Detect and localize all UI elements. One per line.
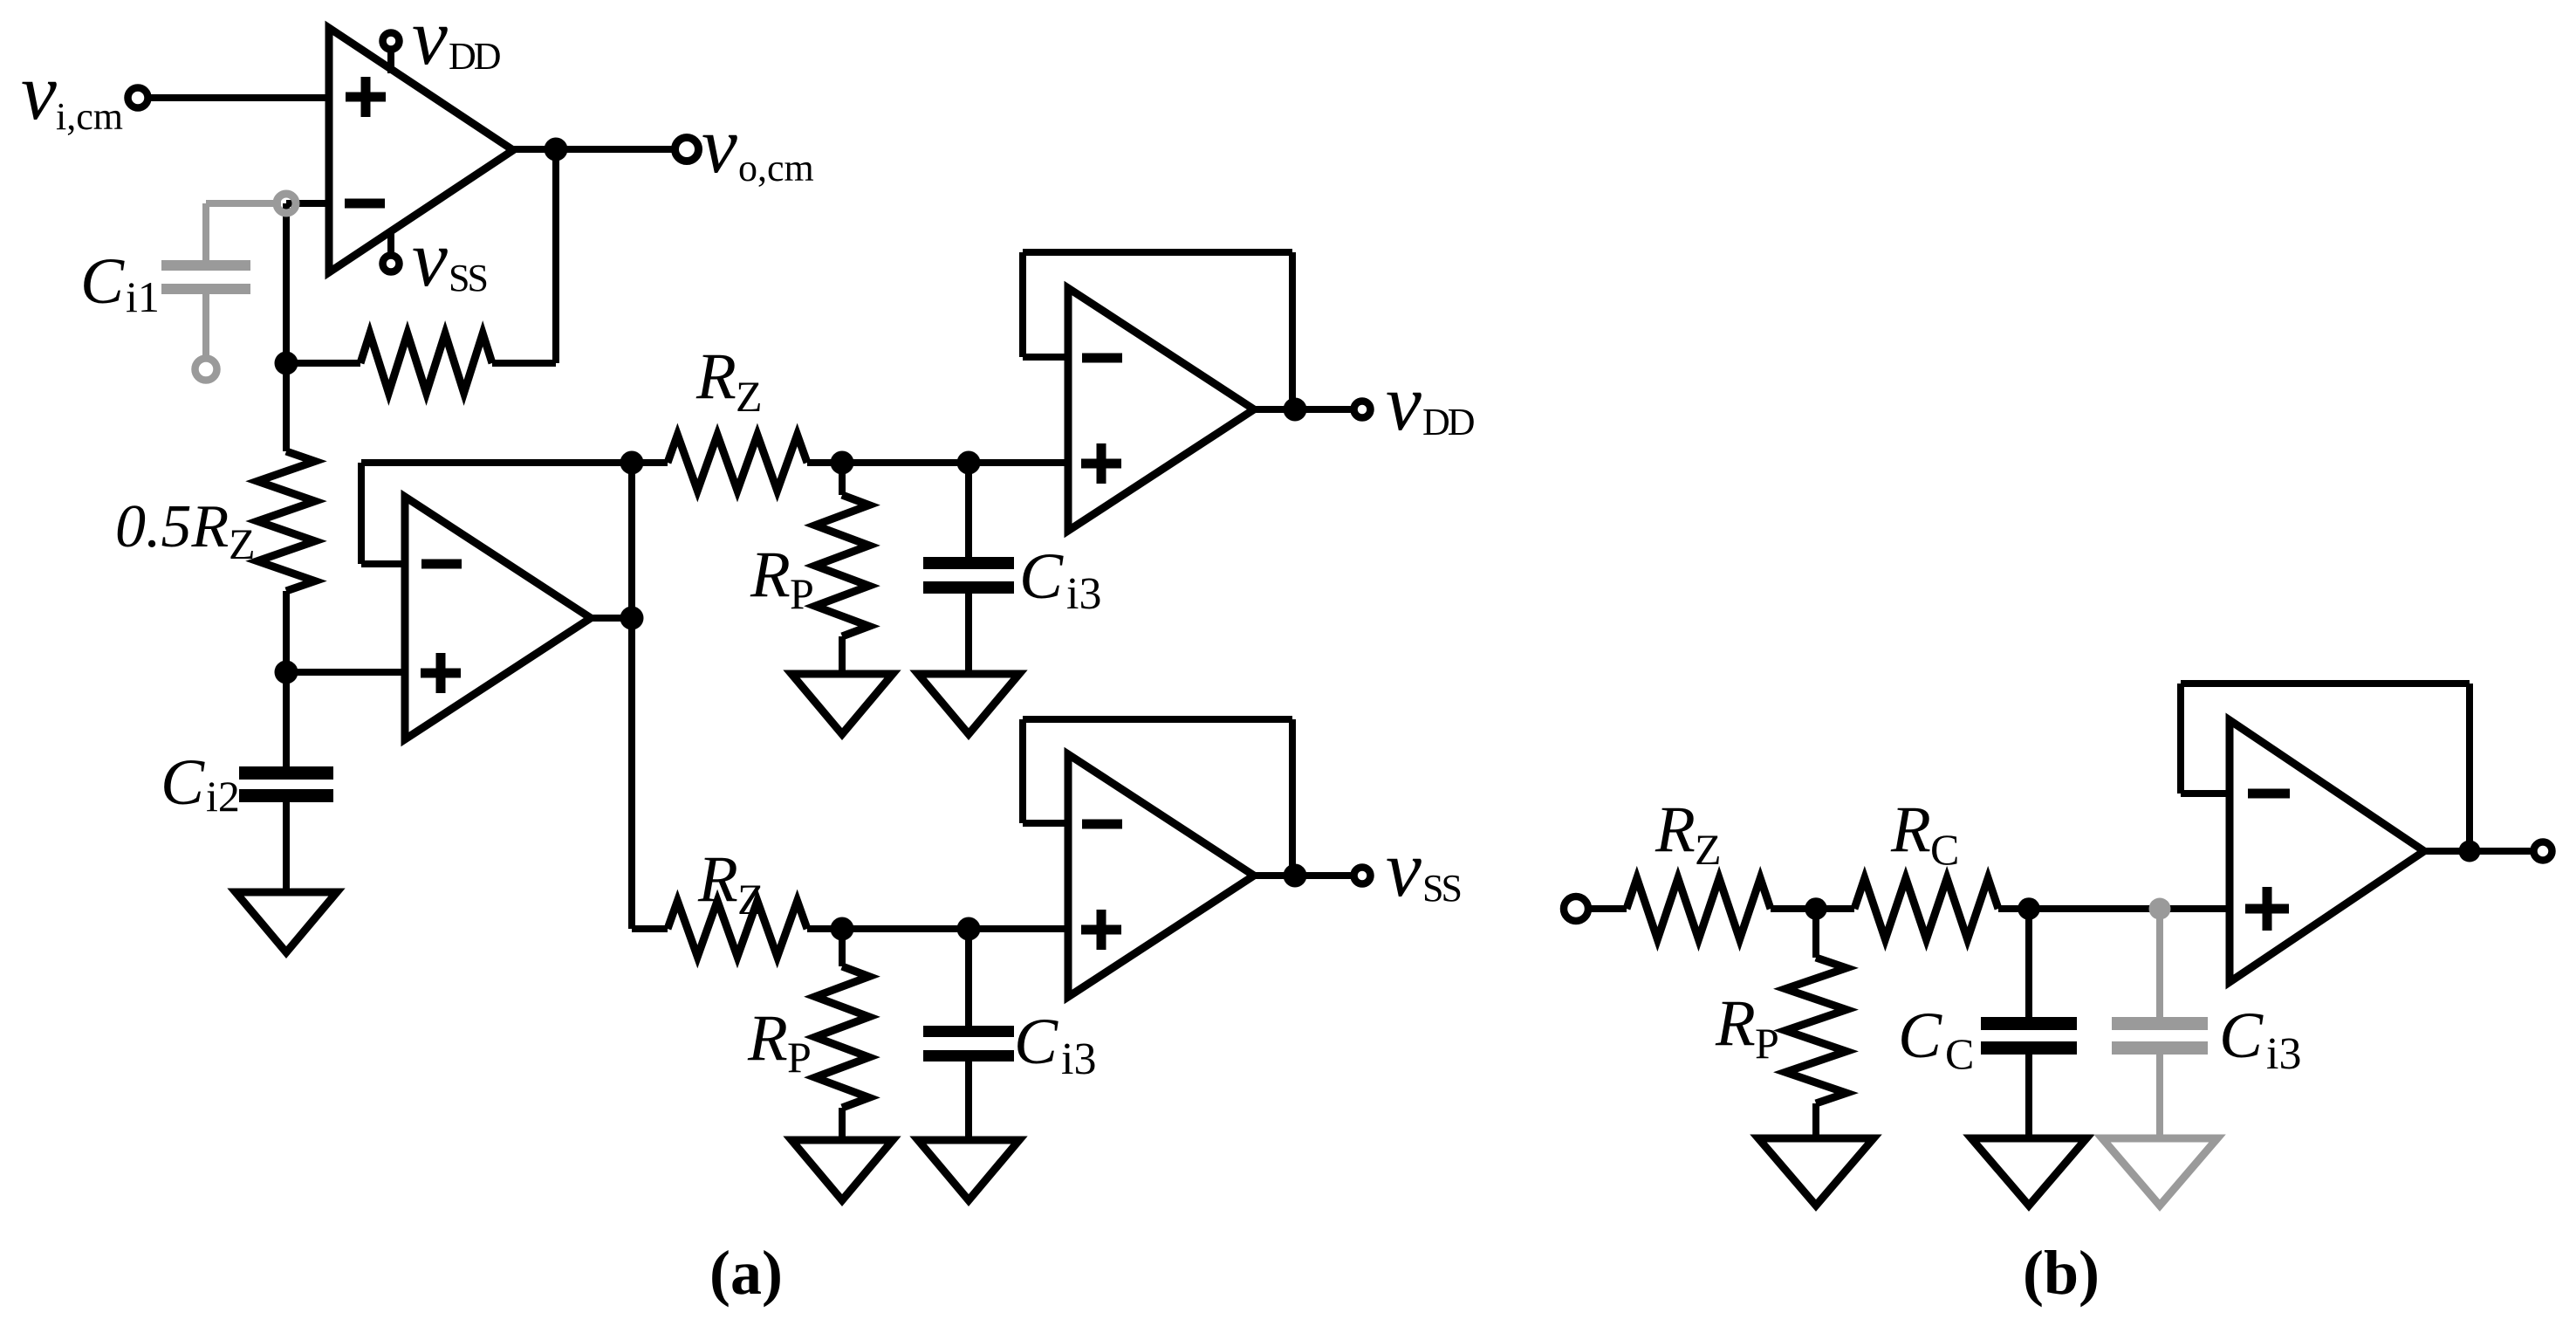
svg-text:i3: i3: [1066, 569, 1101, 619]
svg-text:P: P: [787, 1033, 812, 1082]
svg-text:R: R: [1890, 794, 1931, 866]
svg-text:i,cm: i,cm: [56, 95, 123, 138]
svg-text:R: R: [747, 1002, 788, 1075]
svg-text:Z: Z: [229, 519, 256, 568]
svg-text:R: R: [695, 340, 736, 413]
svg-text:P: P: [1755, 1019, 1779, 1068]
svg-text:C: C: [80, 245, 125, 318]
svg-text:o,cm: o,cm: [738, 147, 814, 189]
svg-text:SS: SS: [1422, 867, 1460, 910]
svg-text:DD: DD: [1422, 401, 1475, 443]
svg-text:C: C: [2219, 1000, 2264, 1072]
svg-text:C: C: [1019, 540, 1064, 613]
svg-text:(b): (b): [2023, 1238, 2100, 1308]
svg-text:R: R: [750, 539, 791, 611]
svg-text:Z: Z: [1695, 825, 1722, 874]
svg-text:v: v: [1386, 358, 1422, 447]
svg-text:v: v: [412, 0, 448, 81]
svg-text:R: R: [697, 843, 738, 916]
svg-text:R: R: [1655, 794, 1696, 866]
svg-text:Z: Z: [737, 875, 764, 924]
svg-text:v: v: [21, 47, 57, 136]
svg-text:i1: i1: [126, 272, 160, 321]
svg-text:i3: i3: [1061, 1034, 1096, 1084]
svg-text:C: C: [1898, 1000, 1942, 1072]
svg-text:C: C: [1945, 1029, 1974, 1078]
svg-text:v: v: [412, 214, 448, 303]
svg-text:R: R: [1715, 987, 1756, 1060]
svg-text:C: C: [161, 746, 205, 819]
svg-text:i2: i2: [206, 772, 240, 821]
svg-text:v: v: [702, 100, 737, 189]
svg-text:C: C: [1014, 1006, 1058, 1078]
svg-text:v: v: [1386, 824, 1422, 913]
svg-text:SS: SS: [449, 257, 486, 299]
svg-text:P: P: [790, 569, 814, 618]
svg-text:0.5R: 0.5R: [115, 493, 229, 560]
svg-text:DD: DD: [449, 35, 501, 78]
svg-text:i3: i3: [2266, 1029, 2301, 1079]
svg-text:(a): (a): [709, 1238, 783, 1308]
svg-text:Z: Z: [736, 372, 763, 421]
svg-text:C: C: [1930, 825, 1959, 874]
